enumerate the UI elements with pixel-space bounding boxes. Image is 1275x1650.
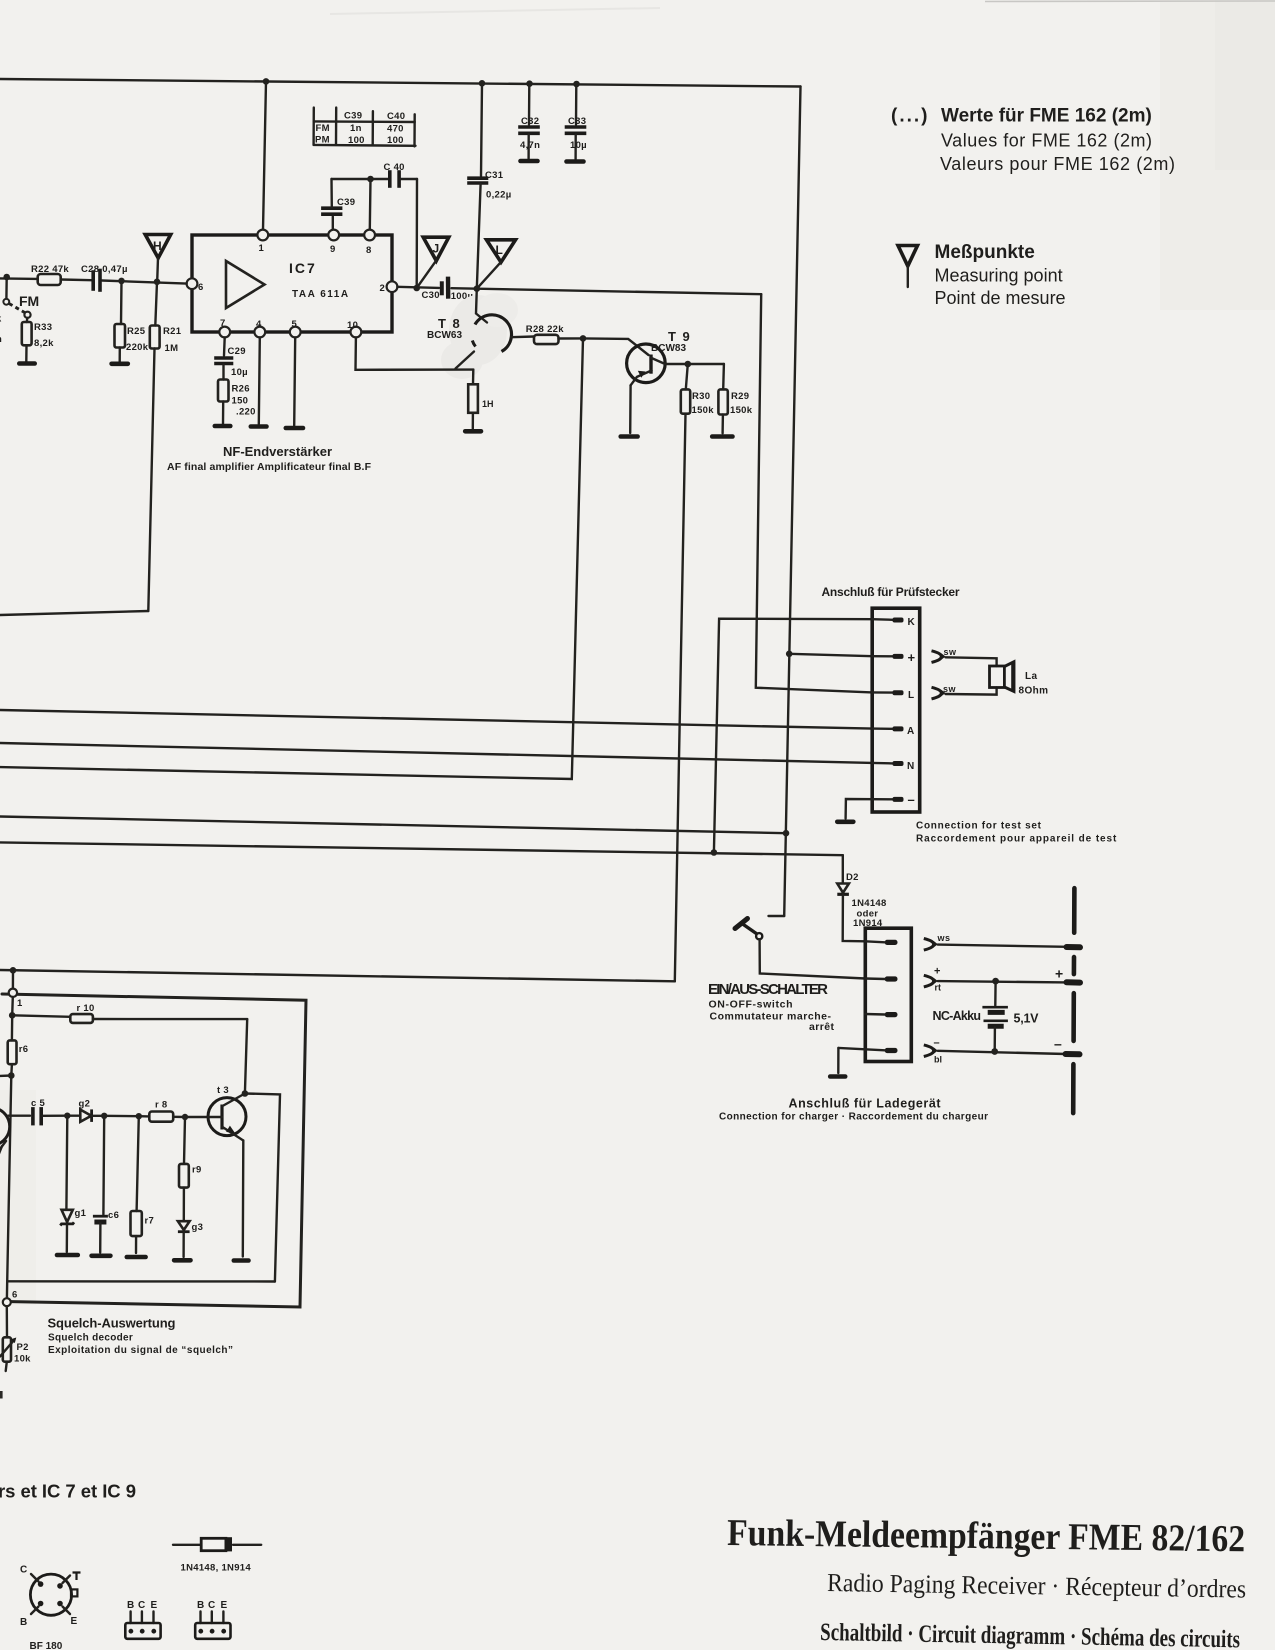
pin 2: [380, 281, 398, 294]
svg-text:J: J: [433, 242, 440, 256]
node C40/J junction: [413, 285, 420, 292]
svg-text:NF-Endverstärker: NF-Endverstärker: [223, 444, 332, 459]
svg-text:r 8: r 8: [155, 1100, 168, 1111]
ground c6: [92, 1254, 111, 1259]
node R28/T9 junction: [580, 335, 587, 342]
transistor t1 cropped: [0, 1108, 10, 1156]
wire r6 node down to pin6: [7, 1076, 11, 1282]
svg-text:8,2k: 8,2k: [34, 338, 54, 349]
resistor r9: [179, 1117, 202, 1221]
wire T9 base: [583, 338, 649, 355]
svg-text:Raccordement pour appareil de: Raccordement pour appareil de test: [916, 834, 1117, 845]
wire t3 emitter down: [242, 1141, 245, 1257]
node r10 junction: [9, 1012, 16, 1019]
wire R28-node line to left edge: [0, 338, 583, 779]
wire IC7 pin2 output line: [397, 287, 761, 294]
svg-text:n: n: [0, 334, 2, 345]
svg-text:TAA 611A: TAA 611A: [292, 289, 350, 300]
node rail/C33 junction: [573, 81, 580, 88]
svg-text:P2: P2: [17, 1342, 29, 1353]
measuring point L: [477, 240, 516, 289]
svg-text:100: 100: [387, 135, 404, 146]
svg-text:BCW63: BCW63: [427, 330, 462, 341]
svg-text:A: A: [907, 726, 915, 737]
wire ws to charger terminal: [938, 945, 1067, 947]
scan mottling left: [0, 1090, 36, 1305]
inductor 1H: [468, 370, 493, 429]
ground g1: [57, 1253, 78, 1258]
resistor r10: [12, 1003, 247, 1023]
svg-text:Squelch-Auswertung: Squelch-Auswertung: [48, 1316, 176, 1331]
wire left stub at r6 node: [0, 1074, 11, 1077]
pin bl: [838, 1048, 897, 1053]
resistor R30 150k: [681, 364, 714, 416]
plug contact ws: [924, 933, 951, 950]
svg-text:c6: c6: [108, 1210, 119, 1221]
squelch module box: [2, 994, 306, 1307]
scan edge line top: [985, 0, 1275, 3]
svg-text:D2: D2: [846, 872, 859, 883]
svg-text:g2: g2: [79, 1099, 91, 1110]
wire R30 node to squelch pin1 and left edge: [0, 970, 675, 981]
connector charger body: [865, 928, 911, 1061]
svg-text:r6: r6: [19, 1044, 29, 1055]
switch EIN/AUS lever: [735, 919, 762, 940]
transistor case BF180: [20, 1565, 81, 1650]
transistor package BCE 1: [125, 1600, 160, 1639]
measuring point J: [417, 237, 449, 288]
svg-text:C30: C30: [422, 290, 440, 301]
boundary dashed line charger: [1073, 888, 1074, 1113]
ground pin7 chain: [215, 424, 231, 429]
resistor r6: [8, 1015, 29, 1075]
plug contact bl: [924, 1037, 942, 1065]
pin L: [872, 690, 914, 701]
svg-text:(...): (...): [891, 106, 930, 127]
svg-text:C39: C39: [337, 197, 355, 208]
svg-text:C31: C31: [485, 170, 504, 181]
svg-text:FM: FM: [19, 293, 39, 309]
ground C32: [521, 159, 538, 164]
ground g3: [174, 1258, 190, 1263]
resistor r8: [139, 1100, 185, 1122]
svg-text:Meßpunkte: Meßpunkte: [935, 242, 1035, 263]
wire A line: [0, 710, 872, 729]
capacitor C30 100u: [422, 277, 474, 302]
svg-text:8Ohm: 8Ohm: [1019, 686, 1049, 697]
wire pin 4 down: [259, 337, 260, 424]
node t3 base junction: [182, 1114, 188, 1120]
svg-text:R25: R25: [127, 326, 146, 337]
svg-text:220k: 220k: [126, 342, 149, 353]
svg-text:T 8: T 8: [438, 316, 461, 331]
resistor R21 1M: [148, 282, 181, 611]
svg-text:0,22µ: 0,22µ: [486, 190, 511, 201]
wire C40 drop to output node: [416, 179, 419, 288]
svg-text:r 10: r 10: [77, 1003, 95, 1014]
wire pin6 internal rail: [7, 1280, 275, 1283]
ground R29: [712, 434, 732, 439]
diode g3: [178, 1221, 203, 1257]
capacitor C39: [323, 179, 355, 230]
svg-text:ON-OFF-switch: ON-OFF-switch: [709, 999, 793, 1011]
node rail/C31 junction: [479, 80, 486, 87]
svg-text:Connection for test set: Connection for test set: [916, 821, 1042, 832]
svg-text:B: B: [197, 1600, 205, 1611]
connector test set body: [872, 608, 920, 812]
capacitor C32: [520, 84, 540, 159]
svg-text:100: 100: [348, 135, 365, 146]
wire top supply rail: [0, 79, 801, 87]
note values for FME 162: [891, 106, 1175, 175]
value table C39/C40 FM/PM: [314, 108, 416, 147]
wire C39 to C40: [332, 178, 389, 180]
svg-text:Measuring point: Measuring point: [935, 266, 1063, 286]
pin 5: [290, 319, 301, 337]
ground t3 emitter: [234, 1258, 249, 1263]
svg-text:6: 6: [198, 282, 204, 293]
pin 1 squelch: [9, 970, 23, 1009]
op-amp IC7 TAA611A body: [192, 235, 392, 332]
pin +: [872, 650, 915, 665]
svg-text:sw: sw: [943, 684, 957, 694]
svg-text:4,7n: 4,7n: [520, 140, 540, 151]
capacitor c6: [93, 1116, 119, 1253]
wire T8 base drop: [476, 289, 487, 323]
diode g1 zener: [60, 1116, 86, 1252]
svg-text:Connection for charger · Racco: Connection for charger · Raccordement du…: [719, 1112, 988, 1123]
node K-drop/D2-line junction: [711, 849, 718, 856]
node input/switch junction: [3, 274, 10, 281]
transistor T9 BCW83: [627, 329, 692, 385]
svg-text:rt: rt: [935, 983, 942, 993]
svg-text:C32: C32: [521, 116, 539, 127]
node g1 junction: [64, 1113, 70, 1119]
svg-text:R29: R29: [731, 391, 749, 402]
svg-text:C: C: [138, 1600, 146, 1611]
capacitor C40: [384, 162, 418, 186]
svg-text:1N4148: 1N4148: [852, 898, 887, 909]
ground 1H: [465, 429, 481, 434]
ground C33: [567, 159, 584, 164]
svg-text:Squelch decoder: Squelch decoder: [48, 1333, 133, 1344]
ground r7: [127, 1255, 146, 1260]
pin N: [872, 761, 914, 772]
node battery - junction: [991, 1048, 998, 1055]
diode D2: [837, 855, 886, 941]
svg-text:7: 7: [220, 318, 226, 329]
wire switch fixed contact: [769, 915, 785, 917]
pin 1: [257, 230, 268, 254]
svg-text:T 9: T 9: [668, 329, 691, 344]
wire T8 emitter: [456, 352, 475, 369]
node C28/R25 junction: [118, 278, 125, 285]
pin 6: [187, 278, 204, 293]
svg-text:L: L: [908, 690, 915, 701]
transistor t3: [208, 1085, 246, 1141]
ground bl pin: [830, 1048, 845, 1077]
wire R30 long drop to squelch: [675, 414, 686, 982]
resistor r7: [131, 1116, 155, 1253]
terminal bar -: [1066, 1051, 1080, 1057]
svg-text:Point de mesure: Point de mesure: [935, 288, 1066, 308]
wire sw+ to speaker: [946, 657, 997, 666]
wire T9 emitter down: [629, 385, 632, 433]
svg-text:E: E: [151, 1600, 158, 1611]
svg-text:C40: C40: [387, 111, 405, 122]
pin A: [872, 726, 914, 737]
wire pin 5 down: [294, 337, 295, 425]
svg-text:IC7: IC7: [289, 260, 317, 276]
wire bus line to D2: [0, 842, 843, 855]
whiteout blob artifact: [441, 293, 518, 379]
node H junction: [154, 279, 161, 286]
plug contact sw L: [932, 684, 957, 699]
speaker La 8 Ohm: [990, 662, 1049, 697]
capacitor C31: [469, 83, 511, 288]
node battery + junction: [992, 978, 999, 985]
wire bus line to plus rail: [0, 817, 786, 834]
scan shading top right: [1160, 0, 1275, 310]
node t3 collector junction: [242, 1090, 249, 1097]
svg-text:PM: PM: [315, 135, 330, 146]
wire switch to charger + pin: [760, 939, 866, 978]
node r6 bottom junction: [8, 1072, 15, 1079]
resistor R33 8,2k: [22, 318, 54, 362]
svg-text:c 5: c 5: [31, 1098, 46, 1109]
svg-text:Anschluß für Prüfstecker: Anschluß für Prüfstecker: [822, 585, 960, 599]
capacitor c5: [31, 1098, 67, 1124]
artifact blob left edge: [0, 1391, 3, 1399]
potentiometer P2 10k: [0, 1306, 31, 1371]
svg-text:+: +: [908, 650, 916, 665]
svg-text:10µ: 10µ: [570, 140, 587, 151]
wire supply rail drop to switch contact: [784, 87, 800, 917]
resistor R25 220k: [115, 281, 149, 362]
pin 9: [328, 230, 339, 255]
svg-text:sw: sw: [944, 647, 958, 657]
pin 3: [865, 1012, 897, 1017]
node rail/C32 junction: [526, 80, 533, 87]
pin 4: [254, 319, 265, 337]
svg-text:1H: 1H: [482, 399, 494, 409]
node pin8 riser junction: [367, 176, 374, 183]
node rail/pin1 junction: [263, 78, 270, 85]
svg-text:Values for FME 162 (2m): Values for FME 162 (2m): [941, 131, 1152, 151]
pin ws: [865, 940, 897, 945]
svg-text:2: 2: [380, 283, 386, 294]
svg-text:t 3: t 3: [217, 1085, 229, 1096]
svg-text:1n: 1n: [350, 123, 362, 134]
svg-text:arrêt: arrêt: [809, 1021, 834, 1033]
node T8 base junction: [474, 285, 481, 292]
wire R21 to left edge: [0, 611, 148, 615]
svg-text:10: 10: [347, 320, 358, 331]
svg-text:Valeurs pour FME 162 (2m): Valeurs pour FME 162 (2m): [940, 154, 1175, 174]
svg-text:R21: R21: [163, 326, 182, 337]
node plus-rail/bus junction: [783, 830, 790, 837]
wire to r7 node: [104, 1115, 139, 1118]
svg-text:+: +: [934, 966, 940, 978]
capacitor C28 0,47u: [81, 264, 128, 290]
battery NC-Akku 5,1V: [933, 981, 1040, 1051]
svg-text:.220: .220: [236, 407, 256, 418]
wire to t3 base: [185, 1116, 208, 1118]
svg-text:R28 22k: R28 22k: [526, 324, 564, 335]
wire output drop to L pin: [756, 294, 872, 692]
svg-text:C28 0,47µ: C28 0,47µ: [81, 264, 128, 275]
ground minus pin: [837, 819, 853, 824]
svg-text:–: –: [934, 1037, 940, 1049]
svg-text:Anschluß für Ladegerät: Anschluß für Ladegerät: [789, 1097, 942, 1111]
svg-text:AF final amplifier Amplificat: AF final amplifier Amplificateur final B…: [167, 461, 372, 473]
resistor R29 150k: [718, 364, 752, 433]
pin 8: [364, 230, 375, 256]
capacitor C29: [216, 337, 248, 379]
measuring point H: [145, 235, 171, 282]
resistor R28 22k: [526, 324, 583, 344]
wire pin 10 to emitter node: [356, 337, 474, 369]
svg-text:470: 470: [387, 124, 404, 135]
node collector/R30 junction: [685, 361, 692, 368]
svg-text:ws: ws: [937, 933, 951, 943]
svg-text:E: E: [221, 1600, 228, 1611]
svg-text:EIN/AUS-SCHALTER: EIN/AUS-SCHALTER: [708, 981, 828, 998]
wire plus pin feed: [789, 654, 872, 656]
svg-text:C29: C29: [228, 346, 246, 357]
legend measuring point symbol: [898, 246, 918, 288]
pin 7: [219, 318, 230, 337]
capacitor C33: [567, 84, 587, 159]
ground pin5: [286, 426, 303, 431]
terminal bar +: [1067, 979, 1081, 985]
svg-text:10µ: 10µ: [231, 367, 248, 378]
wire T9 collector: [665, 363, 724, 365]
wire rt to charger terminal: [938, 981, 1067, 982]
svg-text:bl: bl: [934, 1055, 942, 1065]
svg-text:K: K: [908, 617, 916, 628]
wire t1 to c5: [8, 1114, 30, 1116]
svg-text:B: B: [127, 1600, 135, 1611]
pin rt: [865, 976, 897, 981]
wire pin1 down: [11, 997, 14, 1015]
pin 10: [347, 320, 361, 337]
svg-text:1N4148, 1N914: 1N4148, 1N914: [181, 1563, 252, 1574]
svg-text:C 40: C 40: [384, 162, 405, 173]
svg-text:B: B: [20, 1617, 28, 1628]
svg-text:H: H: [153, 239, 162, 253]
wire swL to speaker: [946, 688, 997, 695]
terminal bar ws: [1067, 944, 1081, 950]
wire N line: [0, 743, 872, 763]
wire collector loop to pin6 rail: [245, 1094, 280, 1282]
svg-text:+: +: [1055, 966, 1063, 982]
svg-text:R30: R30: [692, 391, 710, 402]
svg-text:9: 9: [330, 244, 336, 255]
diode g2: [67, 1099, 104, 1122]
svg-text:NC-Akku: NC-Akku: [933, 1009, 982, 1023]
svg-text:C39: C39: [344, 111, 362, 122]
svg-text:r9: r9: [192, 1165, 202, 1176]
svg-text:E: E: [71, 1616, 78, 1627]
svg-text:Werte für FME 162 (2m): Werte für FME 162 (2m): [941, 106, 1152, 127]
svg-text:10k: 10k: [14, 1354, 31, 1365]
svg-text:g1: g1: [75, 1208, 87, 1219]
svg-text:Funk-Meldeempfänger FME 82/162: Funk-Meldeempfänger FME 82/162: [727, 1512, 1245, 1560]
svg-text:5,1V: 5,1V: [1014, 1012, 1040, 1026]
diode package 1N4148/1N914: [173, 1537, 261, 1573]
resistor R22 47k: [31, 264, 69, 285]
svg-text:R26: R26: [232, 384, 250, 395]
svg-text:Exploitation du signal de “squ: Exploitation du signal de “squelch”: [48, 1345, 233, 1356]
pin minus: [846, 792, 915, 819]
resistor R26: [218, 380, 256, 425]
switch FM wiper: [3, 277, 39, 318]
node c6 junction: [101, 1113, 107, 1119]
pin K: [872, 617, 915, 628]
svg-text:C33: C33: [568, 116, 586, 127]
svg-text:4: 4: [256, 319, 262, 330]
plug contact sw plus: [932, 647, 958, 662]
svg-text:L: L: [496, 243, 503, 257]
svg-text:N: N: [907, 761, 915, 772]
transistor package BCE 2: [195, 1600, 230, 1639]
ground pin4: [251, 424, 267, 429]
wire input line to pin 6: [0, 278, 187, 283]
svg-text:r7: r7: [145, 1216, 155, 1227]
svg-text:R33: R33: [34, 322, 52, 333]
svg-text:C: C: [208, 1600, 216, 1611]
svg-text:La: La: [1025, 671, 1038, 682]
svg-text:C: C: [20, 1565, 28, 1576]
svg-text:1M: 1M: [165, 343, 179, 354]
svg-text:1: 1: [259, 243, 265, 254]
svg-text:–: –: [908, 792, 915, 807]
svg-text:R22 47k: R22 47k: [31, 264, 69, 275]
svg-text:5: 5: [292, 319, 298, 330]
svg-text:–: –: [1054, 1036, 1062, 1052]
svg-text:8: 8: [366, 245, 372, 256]
node r7 junction: [136, 1113, 142, 1119]
transistor T8 BCW63: [427, 315, 512, 352]
svg-text:g3: g3: [192, 1222, 204, 1233]
pin 6 squelch: [3, 1281, 18, 1306]
node plus pin junction: [786, 651, 793, 658]
svg-text:FM: FM: [316, 123, 330, 134]
plug contact rt: [924, 966, 941, 993]
svg-text:6: 6: [12, 1290, 18, 1301]
ground R25: [112, 361, 128, 366]
node squelch pin1 junction: [10, 967, 17, 974]
wire K line and drop: [714, 619, 872, 853]
wire T8 collector: [511, 335, 534, 338]
svg-text:BF 180: BF 180: [30, 1641, 63, 1650]
wire pin8 riser: [369, 179, 372, 230]
svg-text:1: 1: [17, 998, 23, 1009]
svg-text:150: 150: [232, 396, 249, 407]
wire bl to charger terminal: [938, 1051, 1066, 1054]
svg-text:150k: 150k: [730, 405, 753, 416]
svg-text:rs et IC 7 et IC 9: rs et IC 7 et IC 9: [0, 1481, 136, 1502]
wire pin1 riser: [263, 81, 266, 229]
svg-text:150k: 150k: [692, 405, 715, 416]
ground R33: [19, 361, 34, 366]
wire r10 drop to t3 collector: [245, 1019, 247, 1093]
ground T9 emitter: [621, 434, 638, 439]
svg-text:BCW83: BCW83: [651, 343, 686, 354]
